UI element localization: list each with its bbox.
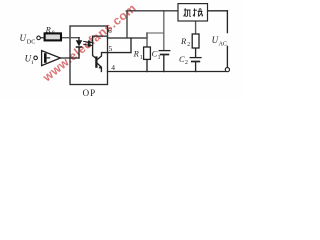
- svg-text:R: R: [133, 49, 140, 59]
- svg-text:OP: OP: [83, 88, 97, 98]
- svg-text:i: i: [31, 59, 33, 66]
- svg-text:5: 5: [109, 44, 113, 53]
- svg-text:6: 6: [108, 26, 112, 35]
- svg-text:U: U: [212, 35, 219, 45]
- svg-text:AC: AC: [219, 41, 227, 47]
- svg-text:R: R: [45, 25, 52, 35]
- svg-text:U: U: [20, 33, 27, 43]
- svg-text:R: R: [180, 36, 187, 46]
- svg-text:2: 2: [185, 60, 188, 66]
- svg-text:4: 4: [111, 63, 115, 72]
- svg-text:DC: DC: [27, 39, 36, 46]
- svg-text:2: 2: [187, 42, 190, 48]
- svg-text:1: 1: [140, 55, 143, 61]
- svg-text:1: 1: [158, 55, 161, 61]
- svg-text:0: 0: [52, 31, 55, 37]
